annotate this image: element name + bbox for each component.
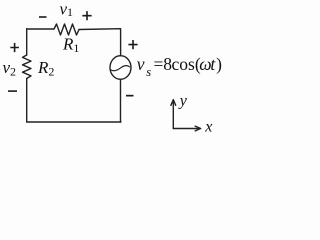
source Vs circle (110, 56, 131, 80)
wire left-bottom segment (26, 79, 28, 123)
svg-text:R2: R2 (37, 58, 54, 79)
svg-text:R1: R1 (62, 34, 79, 55)
label minus of vs (126, 95, 134, 97)
source Vs sine wave (110, 66, 129, 71)
wire top-left segment (27, 28, 54, 30)
svg-text:y: y (178, 93, 188, 110)
svg-text:vs=8cos(ωt): vs=8cos(ωt) (137, 54, 222, 79)
svg-text:v1: v1 (60, 0, 74, 19)
resistor R1 (54, 24, 79, 35)
wire left-top segment (26, 29, 28, 55)
label plus of vs (128, 40, 137, 49)
label minus of v2 (8, 90, 17, 92)
resistor R2 (23, 55, 32, 79)
label minus of v1 (39, 16, 47, 18)
wire bottom segment (27, 121, 121, 123)
svg-text:x: x (204, 119, 212, 136)
label plus of v2 (10, 43, 19, 52)
wire source to bottom-right corner (120, 79, 122, 122)
svg-text:v2: v2 (3, 58, 17, 79)
wire top-right segment (79, 29, 121, 56)
axes: x axis arrow (173, 128, 198, 130)
label plus of v1 (82, 11, 91, 20)
axes: y axis arrow (171, 100, 201, 131)
